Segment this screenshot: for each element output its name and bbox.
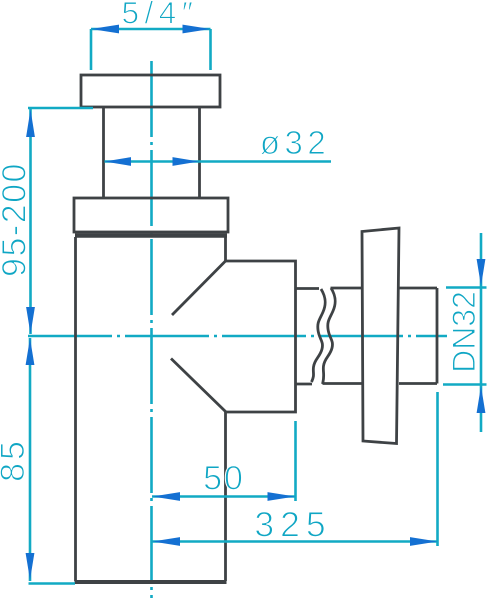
lower inner chamfer diagonal	[171, 359, 226, 413]
top flange (upper nut)	[81, 75, 220, 107]
svg-text:5/4″: 5/4″	[122, 0, 199, 31]
horizontal centerline of outlet pipe	[28, 335, 447, 338]
dimension 85: bottom extension line	[29, 582, 76, 585]
dimension 5/4": dimension line	[91, 28, 211, 31]
dimension 50: right extension line	[294, 421, 297, 501]
dimension 95-200: up arrowhead	[26, 110, 35, 138]
dimension DN32: up arrowhead	[477, 386, 486, 413]
svg-text:50: 50	[203, 460, 245, 498]
dimension DN32: dimension line	[480, 233, 483, 432]
trap body outline	[76, 237, 296, 581]
outlet pipe segment C top	[399, 287, 437, 290]
break wavy line 2	[323, 288, 336, 384]
dimension 85: up arrowhead	[26, 338, 35, 365]
vertical centerline of trap body	[150, 61, 153, 598]
outlet pipe segment A bottom	[296, 383, 313, 386]
outlet pipe segment B bottom	[323, 382, 363, 385]
dimension 325: right arrowhead	[410, 537, 438, 546]
dimension 85: down arrowhead	[26, 553, 35, 580]
dimension 50: left arrowhead	[153, 492, 181, 501]
dimension DN32: down arrowhead	[477, 259, 486, 286]
lower nut	[74, 198, 228, 232]
svg-text:85: 85	[0, 438, 32, 482]
body bottom heavy line	[75, 580, 227, 584]
svg-text:DN32: DN32	[446, 291, 482, 373]
svg-text:325: 325	[254, 505, 331, 545]
dimension 325: left arrowhead	[153, 537, 181, 546]
dimension ø32: right arrowhead	[173, 157, 200, 166]
outlet pipe segment B top	[331, 287, 363, 290]
dimension 95-200: down arrowhead	[26, 307, 35, 334]
outlet pipe segment C bottom	[399, 382, 437, 385]
dimension 325: dimension line	[153, 540, 438, 543]
break wavy line 1	[312, 289, 326, 382]
dimension 5/4": left arrowhead	[91, 25, 119, 34]
svg-text:ø32: ø32	[260, 124, 330, 161]
dimension 5/4": right arrowhead	[183, 25, 211, 34]
wall flange plate	[362, 228, 399, 444]
dimension DN32: top extension line	[446, 286, 487, 289]
dimension ø32: leader line	[105, 160, 332, 163]
dimension ø32: left arrowhead	[105, 157, 132, 166]
dimension 5/4": extension line right	[209, 29, 212, 70]
dimension 50: right arrowhead	[268, 492, 296, 501]
dimension 5/4": extension line left	[90, 29, 93, 70]
inlet pipe right wall	[198, 107, 201, 198]
dimension DN32: bottom extension line	[443, 383, 487, 386]
inlet pipe left wall	[102, 107, 105, 198]
dimension 325: right extension line	[436, 392, 439, 546]
svg-text:95-200: 95-200	[0, 162, 34, 277]
outlet pipe segment A top	[296, 287, 320, 290]
dimension 95-200: top extension line	[28, 107, 93, 110]
upper inner chamfer diagonal	[172, 261, 226, 315]
dimension 85: dimension line	[29, 338, 32, 581]
dimension 95-200: dimension line	[29, 108, 32, 334]
dimension 50: dimension line	[152, 495, 295, 498]
body shoulder heavy line	[75, 233, 227, 237]
outlet pipe end	[436, 288, 439, 384]
